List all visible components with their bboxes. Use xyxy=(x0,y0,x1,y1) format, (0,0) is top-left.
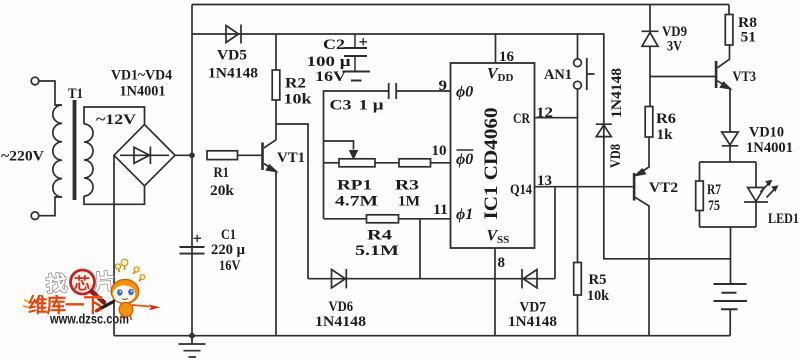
IC1 CD4060 box xyxy=(451,63,535,248)
svg-text:220 μ: 220 μ xyxy=(211,242,245,258)
svg-text:VD1~VD4: VD1~VD4 xyxy=(111,68,172,84)
wire pin11 branch down to VD6 line xyxy=(419,219,421,279)
node junction dot at rectifier output xyxy=(189,153,195,159)
svg-text:AN1: AN1 xyxy=(544,67,572,83)
svg-text:1 μ: 1 μ xyxy=(359,98,385,114)
wire R5 to ground rail xyxy=(577,295,579,336)
svg-text:VD8: VD8 xyxy=(608,144,624,168)
wire VT1 emitter down to ground rail xyxy=(275,171,277,335)
wire top positive rail xyxy=(192,4,729,6)
svg-text:C3: C3 xyxy=(330,98,352,114)
svg-text:VD6: VD6 xyxy=(329,299,354,315)
svg-text:1N4148: 1N4148 xyxy=(315,314,366,330)
R7/LED1 box bottom xyxy=(700,226,757,228)
svg-text:R6: R6 xyxy=(656,111,677,127)
wire RP1 to R3 xyxy=(375,162,399,164)
potentiometer RP1 xyxy=(339,159,375,167)
watermark magnifier ring xyxy=(71,270,95,294)
resistor R8 xyxy=(725,15,733,46)
ground symbol xyxy=(179,336,206,357)
transformer T1 core xyxy=(73,100,77,200)
transistor VT1 xyxy=(261,143,264,171)
wire pin12 line xyxy=(535,117,578,119)
wire box bottom to battery xyxy=(730,227,732,284)
watermark speed lines xyxy=(23,300,29,308)
svg-text:5.1M: 5.1M xyxy=(355,243,399,259)
transformer T1 secondary winding xyxy=(84,124,93,196)
wire R2 top to rail xyxy=(275,34,277,70)
svg-text:芯: 芯 xyxy=(74,274,90,293)
svg-text:100 μ: 100 μ xyxy=(307,54,352,70)
diode VD5 xyxy=(226,25,241,44)
wire VT1 collector up to R2 xyxy=(275,100,277,140)
wire pin8 stub down to ground rail xyxy=(494,248,496,336)
wire collector node to VD6 branch xyxy=(276,124,308,279)
diode VD10 xyxy=(722,132,738,146)
wire VD7 up to pin13 line xyxy=(554,187,556,279)
svg-text:10k: 10k xyxy=(587,288,610,304)
svg-text:51: 51 xyxy=(741,30,757,46)
wire to primary top xyxy=(39,81,62,105)
svg-text:20k: 20k xyxy=(210,183,235,199)
svg-text:1k: 1k xyxy=(657,127,674,143)
resistor R4 xyxy=(367,215,399,223)
wire VD9 branch xyxy=(649,5,651,107)
R7/LED1 parallel box top xyxy=(700,162,757,188)
svg-text:CR: CR xyxy=(513,111,530,127)
wire R6 to VT2 emitter xyxy=(636,137,649,176)
diode VD6 xyxy=(332,269,347,288)
capacitor C2 xyxy=(354,34,356,71)
svg-text:~12V: ~12V xyxy=(96,112,136,128)
svg-text:VD5: VD5 xyxy=(217,48,247,64)
wire VT3 base line xyxy=(650,76,715,78)
wire RP1 wiper feed xyxy=(324,141,354,150)
wire secondary bottom to bridge xyxy=(84,186,145,205)
wire pin11 line xyxy=(324,218,451,220)
svg-text:VT1: VT1 xyxy=(277,150,305,166)
diode VD7 xyxy=(522,269,537,288)
wire pin9 line xyxy=(324,91,451,219)
node junction dot at ground xyxy=(189,333,195,339)
bridge rectifier VD1~VD4 diamond xyxy=(114,125,175,186)
svg-text:75: 75 xyxy=(708,198,720,214)
svg-text:1N4148: 1N4148 xyxy=(609,68,625,118)
transistor VT2 xyxy=(633,173,636,201)
bridge inner diode xyxy=(120,147,169,165)
wire RP1 left terminal xyxy=(324,162,340,164)
svg-text:Q14: Q14 xyxy=(510,182,532,198)
wire top rail to R8 xyxy=(728,5,730,15)
capacitor C3 xyxy=(389,83,397,99)
svg-text:13: 13 xyxy=(537,173,552,189)
svg-text:1N4001: 1N4001 xyxy=(746,140,793,156)
wire LED to box bottom xyxy=(755,202,757,227)
wire to primary bottom xyxy=(39,197,62,216)
svg-text:4.7M: 4.7M xyxy=(335,194,378,210)
resistor R2 xyxy=(272,70,280,100)
svg-text:10: 10 xyxy=(432,143,447,159)
resistor R3 xyxy=(399,159,431,167)
svg-text:找: 找 xyxy=(45,271,68,296)
svg-text:3V: 3V xyxy=(667,39,682,55)
resistor R6 xyxy=(645,107,653,138)
svg-text:11: 11 xyxy=(433,202,448,218)
svg-text:1N4001: 1N4001 xyxy=(120,84,166,100)
zener diode VD9 xyxy=(642,31,659,46)
resistor R5 xyxy=(574,263,582,296)
LED1 emission arrows xyxy=(761,181,778,198)
svg-text:16: 16 xyxy=(499,49,515,65)
wire R3 to pin10 xyxy=(431,162,451,164)
capacitor C1 xyxy=(180,247,205,254)
transformer T1 primary winding xyxy=(53,105,62,197)
battery GB xyxy=(714,284,748,301)
overline of phi0 bar xyxy=(457,149,474,151)
watermark mascot xyxy=(97,259,161,320)
svg-text:R1: R1 xyxy=(214,165,230,181)
wire pin16 stub xyxy=(495,34,497,63)
svg-text:SS: SS xyxy=(497,234,509,246)
svg-text:RP1: RP1 xyxy=(337,178,372,194)
svg-text:ϕ0: ϕ0 xyxy=(456,84,473,101)
svg-text:12: 12 xyxy=(536,105,553,121)
svg-text:8: 8 xyxy=(498,255,506,271)
svg-text:16V: 16V xyxy=(315,69,346,85)
svg-text:LED1: LED1 xyxy=(768,211,799,227)
svg-text:R2: R2 xyxy=(285,76,306,92)
svg-text:16V: 16V xyxy=(219,258,241,274)
RP1 wiper arrow xyxy=(350,151,357,158)
svg-text:T1: T1 xyxy=(68,86,83,102)
watermark magnifier handle xyxy=(92,292,105,303)
svg-text:VD10: VD10 xyxy=(749,125,784,141)
wire second rail y34 through VD5 to VD8 branch xyxy=(192,34,731,259)
svg-text:9: 9 xyxy=(439,78,448,94)
wire left vertical rail xyxy=(191,5,193,336)
svg-text:1N4148: 1N4148 xyxy=(508,314,557,330)
svg-text:www.dzsc.com: www.dzsc.com xyxy=(49,311,129,327)
wire bottom ground rail xyxy=(114,335,730,337)
wire VD6/VD7 line xyxy=(308,278,555,280)
wire pin13 line to VT2 base xyxy=(535,186,633,188)
svg-text:VT3: VT3 xyxy=(733,69,757,85)
wire R1 to VT1 base xyxy=(238,154,262,156)
terminal bottom xyxy=(31,212,39,220)
diode VD8 xyxy=(596,124,612,136)
svg-text:R7: R7 xyxy=(707,182,721,198)
svg-text:IC1 CD4060: IC1 CD4060 xyxy=(481,108,502,220)
ground symbol under C2 xyxy=(343,72,371,81)
resistor R1 xyxy=(207,151,238,160)
svg-text:C2: C2 xyxy=(323,37,345,53)
wire bridge left corner down to ground rail xyxy=(113,155,115,335)
svg-text:VT2: VT2 xyxy=(649,180,678,196)
watermark logo group xyxy=(23,259,161,326)
svg-text:10k: 10k xyxy=(284,92,313,108)
svg-text:R5: R5 xyxy=(589,272,607,288)
wire R7 to box bottom xyxy=(699,211,701,228)
terminal top xyxy=(31,77,39,85)
pushbutton AN1 xyxy=(577,34,579,59)
svg-text:1N4148: 1N4148 xyxy=(208,66,258,82)
transistor VT3 xyxy=(715,61,718,88)
resistor R7 xyxy=(696,181,704,211)
svg-text:~220V: ~220V xyxy=(1,149,44,165)
wire secondary top to bridge xyxy=(84,107,145,125)
LED LED1 xyxy=(744,188,768,203)
svg-text:ϕ0: ϕ0 xyxy=(456,151,473,168)
svg-text:ϕ1: ϕ1 xyxy=(456,206,473,223)
svg-text:R3: R3 xyxy=(395,178,419,194)
wire bridge right corner to node xyxy=(175,154,192,156)
wire battery to ground rail xyxy=(729,309,731,335)
svg-text:R4: R4 xyxy=(367,228,393,244)
svg-text:1M: 1M xyxy=(398,194,420,210)
svg-text:C1: C1 xyxy=(221,227,236,243)
wire VD10 to box xyxy=(729,146,731,162)
svg-text:DD: DD xyxy=(498,72,514,84)
